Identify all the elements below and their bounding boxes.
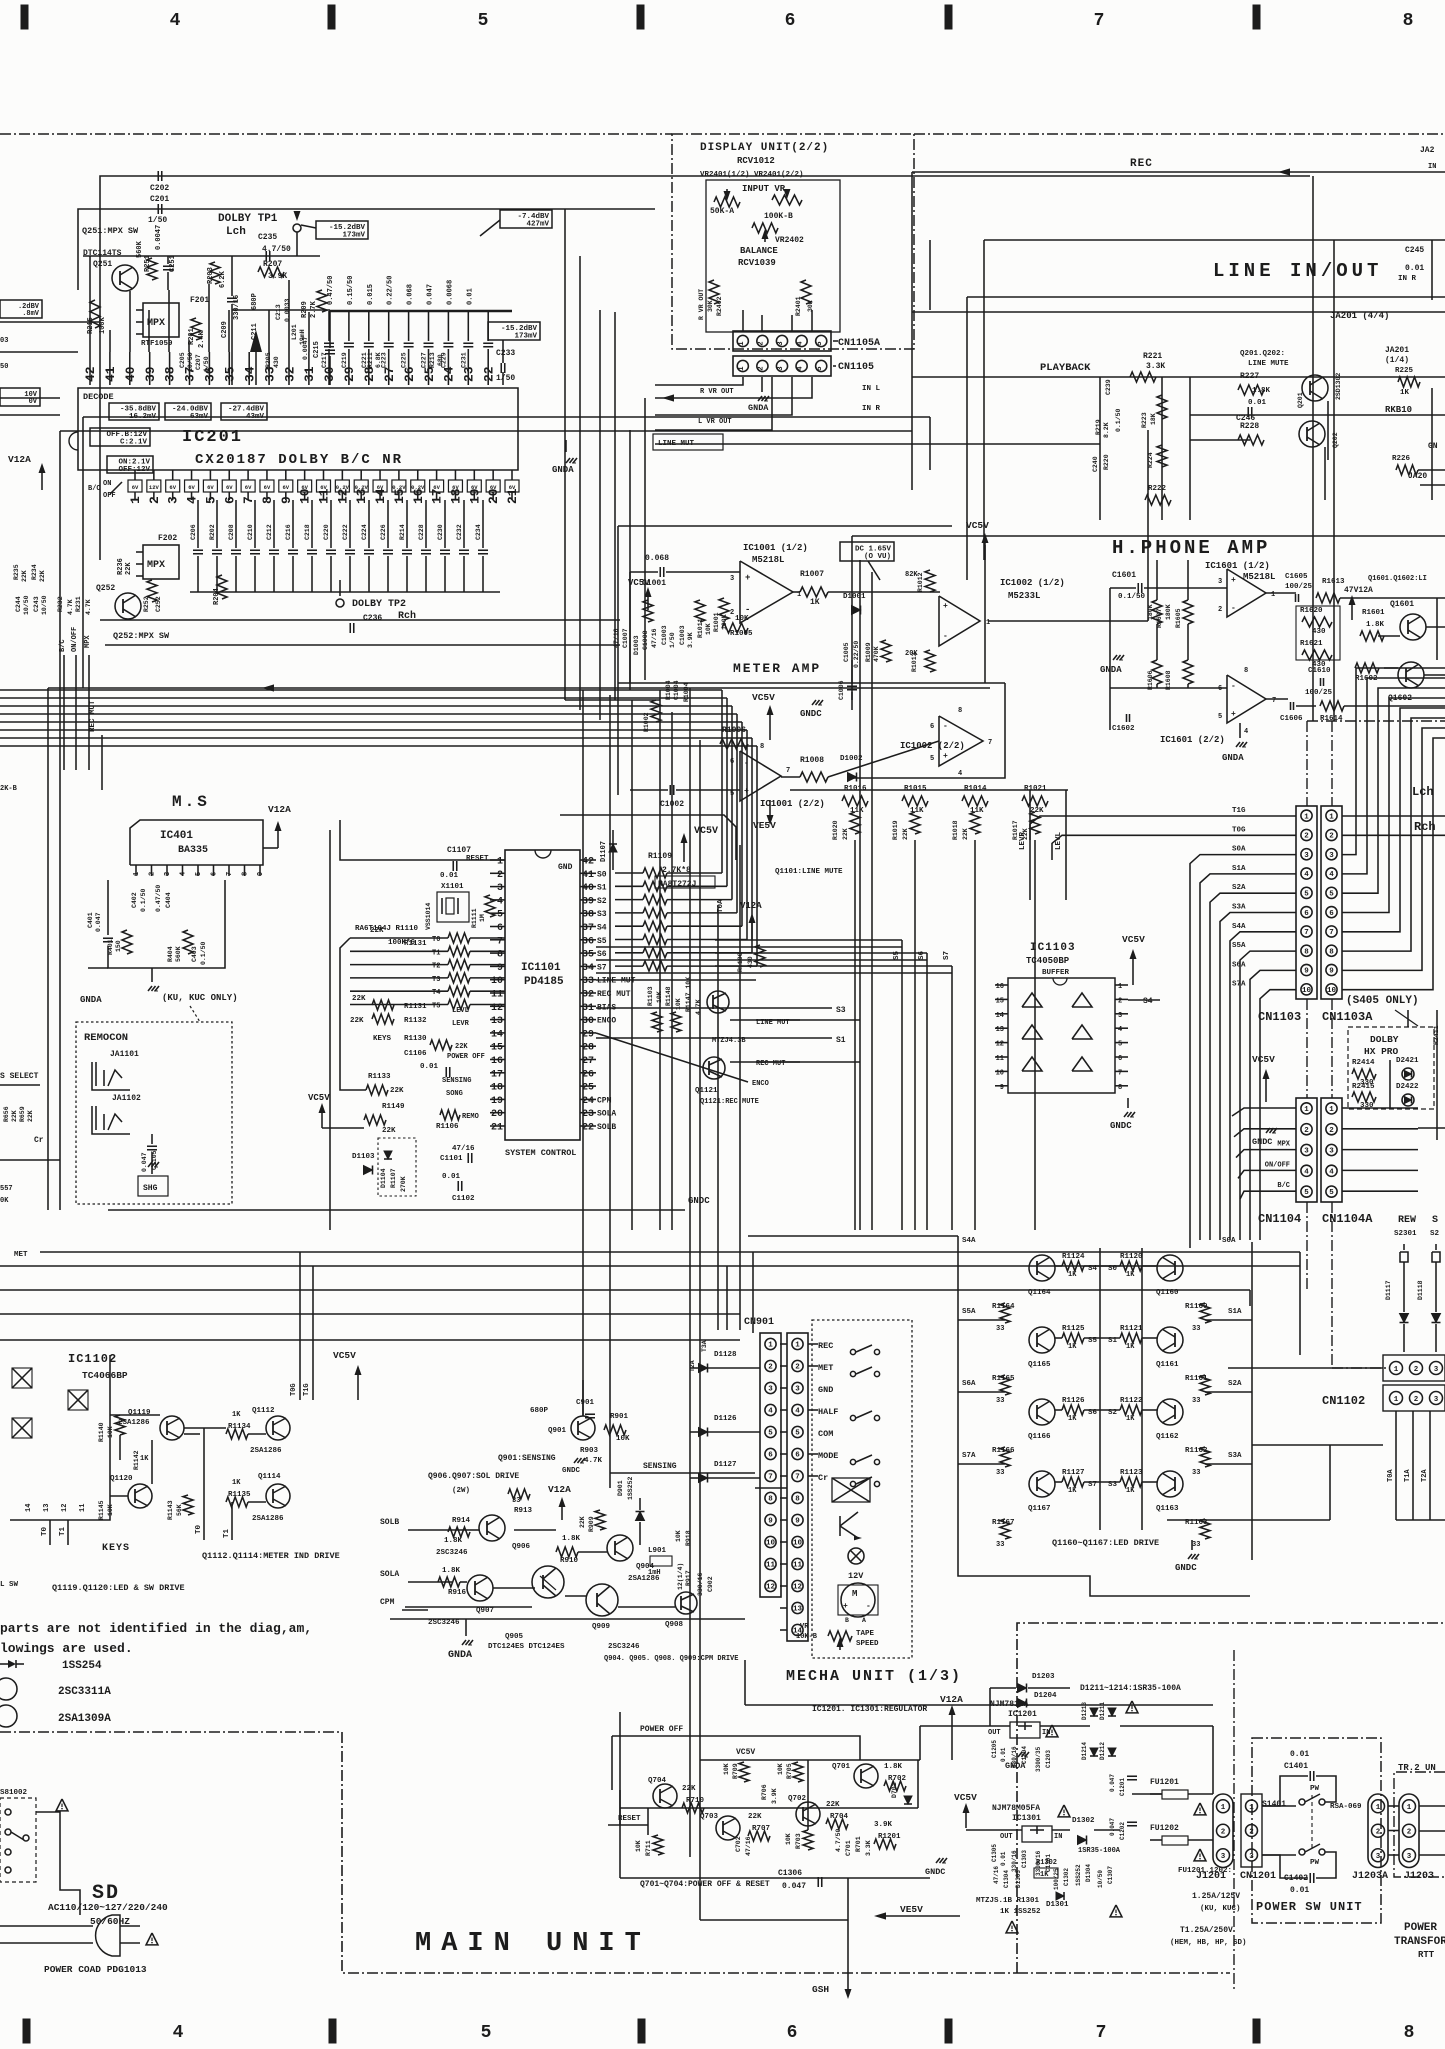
svg-text:M5218L: M5218L xyxy=(1243,572,1275,582)
svg-text:C208: C208 xyxy=(228,524,235,540)
svg-text:10/50: 10/50 xyxy=(41,595,48,615)
plug wires xyxy=(0,1925,93,1927)
svg-text:SHG: SHG xyxy=(143,1184,158,1193)
svg-text:1K: 1K xyxy=(1068,1487,1077,1495)
svg-text:C1102: C1102 xyxy=(452,1195,475,1203)
svg-text:R251: R251 xyxy=(144,255,152,272)
capacitor C227 xyxy=(428,311,430,341)
wire second rail xyxy=(78,209,655,290)
connector CN1102 row1 xyxy=(1383,1355,1445,1381)
svg-text:C228: C228 xyxy=(418,524,425,540)
wire top rail xyxy=(100,176,1310,560)
svg-text:3.9K: 3.9K xyxy=(874,1821,893,1829)
svg-text:ON/OFF: ON/OFF xyxy=(71,627,79,652)
svg-text:LEVR: LEVR xyxy=(452,1020,470,1028)
svg-text:Q252: Q252 xyxy=(96,584,115,593)
svg-text:MPX: MPX xyxy=(84,635,92,648)
svg-text:T1: T1 xyxy=(223,1528,231,1538)
svg-text:R1005: R1005 xyxy=(730,630,753,638)
svg-text:T2: T2 xyxy=(432,963,440,971)
svg-text:(O VU): (O VU) xyxy=(864,553,891,561)
svg-text:0.1/50: 0.1/50 xyxy=(1115,408,1122,432)
svg-text:3: 3 xyxy=(768,1386,773,1394)
svg-text:6: 6 xyxy=(222,496,237,504)
svg-text:MAIN UNIT: MAIN UNIT xyxy=(415,1929,651,1959)
svg-text:1M: 1M xyxy=(479,914,486,922)
svg-text:POWER COAD PDG1013: POWER COAD PDG1013 xyxy=(44,1964,147,1975)
svg-text:22K: 22K xyxy=(27,1110,34,1122)
svg-text:LINE IN/OUT: LINE IN/OUT xyxy=(1213,260,1382,282)
svg-text:C213: C213 xyxy=(275,304,282,320)
svg-text:6: 6 xyxy=(787,2023,798,2043)
svg-text:0.1/50: 0.1/50 xyxy=(140,888,147,912)
svg-text:Q1162: Q1162 xyxy=(1156,1433,1179,1441)
transistor Q907 xyxy=(467,1575,493,1601)
ic IC1103 body xyxy=(1008,978,1115,1093)
svg-text:VC5V: VC5V xyxy=(736,1748,755,1757)
svg-text:R1001: R1001 xyxy=(713,612,720,632)
svg-text:0.22/50: 0.22/50 xyxy=(853,641,860,668)
svg-text:8.2K: 8.2K xyxy=(1103,422,1110,438)
svg-text:1K: 1K xyxy=(810,598,820,607)
transistor Q1161 xyxy=(1157,1327,1183,1353)
transistor Q901 xyxy=(571,1416,595,1440)
svg-text:33: 33 xyxy=(1192,1469,1200,1477)
svg-text:1: 1 xyxy=(1249,1804,1254,1812)
svg-text:T1.25A/250V: T1.25A/250V xyxy=(1180,1926,1233,1935)
svg-text:NJM78M05FA: NJM78M05FA xyxy=(992,1804,1040,1813)
svg-text:3: 3 xyxy=(1221,1853,1226,1861)
svg-text:REW: REW xyxy=(1398,1215,1416,1226)
wire right bundle to grid xyxy=(1189,1240,1191,1248)
svg-text:13: 13 xyxy=(43,1504,51,1512)
ground GNDA hp xyxy=(1113,655,1117,660)
svg-text:7: 7 xyxy=(786,767,790,775)
transistor Q1160 xyxy=(1157,1255,1183,1281)
svg-text:+: + xyxy=(843,1602,848,1611)
svg-text:6: 6 xyxy=(211,872,219,876)
svg-text:1K: 1K xyxy=(1040,1871,1049,1879)
svg-text:D1118: D1118 xyxy=(1417,1280,1424,1300)
svg-text:3: 3 xyxy=(730,575,734,583)
wire cn901 feeds xyxy=(726,1266,728,1330)
value box -27.4dBV xyxy=(221,403,267,420)
svg-text:Rch: Rch xyxy=(398,610,416,622)
svg-text:GND: GND xyxy=(558,863,573,872)
svg-text:VC5V: VC5V xyxy=(1122,934,1145,945)
svg-text:R219: R219 xyxy=(1095,419,1102,435)
svg-text:1/50: 1/50 xyxy=(148,216,167,225)
svg-text:R1134: R1134 xyxy=(228,1423,251,1431)
svg-text:13: 13 xyxy=(354,488,369,504)
svg-text:+: + xyxy=(1231,710,1236,719)
svg-text:-: - xyxy=(943,722,948,731)
wire left edge stubs xyxy=(0,321,100,323)
svg-text:R2401: R2401 xyxy=(795,296,802,316)
svg-text:22K: 22K xyxy=(11,1110,18,1122)
diode D1104 R1107 xyxy=(378,1138,416,1196)
svg-text:D1204: D1204 xyxy=(1034,1692,1057,1700)
svg-text:D1128: D1128 xyxy=(714,1351,737,1359)
transistor Q1166 xyxy=(1029,1399,1055,1425)
svg-text:C252: C252 xyxy=(155,596,162,612)
svg-text:M: M xyxy=(852,1589,857,1599)
svg-text:Cr: Cr xyxy=(818,1473,828,1483)
svg-text:H.PHONE AMP: H.PHONE AMP xyxy=(1112,537,1270,559)
svg-text:VR2401(1/2) VR2401(2/2): VR2401(1/2) VR2401(2/2) xyxy=(700,171,804,179)
svg-text:+: + xyxy=(1231,576,1236,585)
svg-text:22K: 22K xyxy=(682,1785,696,1793)
connector CN1104A xyxy=(1321,1098,1342,1202)
wire meter out bus xyxy=(790,789,1068,791)
wire meter col down xyxy=(854,840,856,1230)
capacitor R202 xyxy=(216,500,218,548)
ground GNDA ic401 xyxy=(151,968,153,982)
svg-text:TR.2 UN: TR.2 UN xyxy=(1398,1763,1436,1773)
svg-text:C1601: C1601 xyxy=(1112,571,1136,580)
svg-text:VC5V: VC5V xyxy=(752,692,775,703)
svg-text:RSA-069: RSA-069 xyxy=(1330,1803,1362,1811)
svg-text:R227: R227 xyxy=(1240,372,1259,381)
capacitor C210 xyxy=(254,500,256,548)
mecha unit right border xyxy=(1017,1623,1445,1973)
svg-text:1: 1 xyxy=(1118,983,1122,991)
svg-text:3: 3 xyxy=(164,872,172,876)
svg-text:2SC3246: 2SC3246 xyxy=(608,1643,640,1651)
wire sol rails xyxy=(470,1529,479,1531)
svg-text:8: 8 xyxy=(1329,948,1334,956)
svg-text:C403: C403 xyxy=(191,946,198,962)
svg-text:Q1119.Q1120:LED & SW DRIVE: Q1119.Q1120:LED & SW DRIVE xyxy=(52,1583,185,1593)
svg-text:S: S xyxy=(1432,1215,1438,1226)
svg-text:4: 4 xyxy=(170,11,181,31)
svg-text:C231: C231 xyxy=(460,352,467,368)
svg-text:39: 39 xyxy=(143,366,158,382)
svg-text:C1304: C1304 xyxy=(1003,1870,1010,1888)
svg-text:R225: R225 xyxy=(1395,367,1414,375)
connector CN1104 xyxy=(1296,1098,1317,1202)
svg-text:1: 1 xyxy=(795,1342,800,1350)
svg-text:22: 22 xyxy=(482,366,497,382)
svg-text:26: 26 xyxy=(582,1069,594,1080)
svg-text:R1132: R1132 xyxy=(404,1017,427,1025)
svg-text:R221: R221 xyxy=(1143,352,1162,361)
connector J1203 xyxy=(1399,1794,1419,1868)
dolby hx pro box xyxy=(1348,1027,1434,1109)
svg-text:T5: T5 xyxy=(432,1003,440,1011)
svg-text:C1203: C1203 xyxy=(1045,1750,1052,1768)
wire keys bus xyxy=(151,1440,153,1484)
connector CN1103 xyxy=(1296,806,1317,999)
svg-text:T1G: T1G xyxy=(1232,807,1246,815)
svg-text:1: 1 xyxy=(497,857,503,868)
wire bottom left buses xyxy=(619,1712,621,1825)
svg-text:2: 2 xyxy=(497,870,503,881)
svg-text:6.8K: 6.8K xyxy=(375,352,382,368)
opamp IC1001a xyxy=(740,561,793,623)
svg-text:1: 1 xyxy=(1394,1366,1399,1374)
svg-text:1: 1 xyxy=(986,619,990,627)
wire vline right cluster xyxy=(1431,388,1433,500)
svg-text:7: 7 xyxy=(1329,929,1334,937)
warning fu1202 xyxy=(1194,1849,1206,1861)
svg-text:R704: R704 xyxy=(830,1813,849,1821)
tr2 unit border xyxy=(1394,1772,1445,1877)
svg-text:32: 32 xyxy=(282,366,297,382)
ic IC401 xyxy=(130,820,263,865)
svg-text:VE5V: VE5V xyxy=(900,1904,923,1915)
svg-text:C1202: C1202 xyxy=(1119,1822,1126,1840)
svg-text:4: 4 xyxy=(958,770,962,778)
wire left verticals xyxy=(47,688,49,1210)
svg-text:IC1101: IC1101 xyxy=(521,962,561,974)
svg-text:R701: R701 xyxy=(855,1836,862,1852)
svg-text:10K: 10K xyxy=(735,615,749,623)
svg-text:TAPE: TAPE xyxy=(856,1630,875,1638)
svg-text:27: 27 xyxy=(582,1056,594,1067)
svg-text:SOLA: SOLA xyxy=(597,1110,616,1119)
capacitor C251 xyxy=(163,265,173,267)
svg-text:S3A: S3A xyxy=(1228,1452,1242,1460)
svg-text:S3: S3 xyxy=(836,1006,846,1015)
svg-text:22: 22 xyxy=(582,1123,594,1134)
svg-text:C1107: C1107 xyxy=(447,846,471,855)
svg-text:D1212: D1212 xyxy=(1099,1742,1106,1760)
svg-text:10: 10 xyxy=(1327,987,1337,995)
svg-text:18K: 18K xyxy=(1150,413,1157,425)
svg-text:Q1160~Q1167:LED DRIVE: Q1160~Q1167:LED DRIVE xyxy=(1052,1538,1159,1548)
capacitor C233col xyxy=(487,311,489,341)
svg-text:-: - xyxy=(866,1602,871,1611)
svg-text:REC MUT: REC MUT xyxy=(597,990,631,999)
svg-text:10: 10 xyxy=(996,1069,1004,1077)
svg-text:1SS252: 1SS252 xyxy=(1075,1864,1082,1886)
svg-text:C218: C218 xyxy=(304,524,311,540)
value box -35.8dBV xyxy=(109,403,159,420)
svg-text:CPM: CPM xyxy=(380,1598,395,1607)
capacitor C1606 xyxy=(1290,702,1292,710)
svg-text:0V: 0V xyxy=(29,398,38,406)
svg-text:0.01: 0.01 xyxy=(420,1063,439,1071)
svg-text:C210: C210 xyxy=(247,524,254,540)
svg-text:Q1112.Q1114:METER IND DRIVE: Q1112.Q1114:METER IND DRIVE xyxy=(202,1551,340,1561)
svg-text:50K-A: 50K-A xyxy=(710,207,734,216)
svg-text:2: 2 xyxy=(149,872,157,876)
svg-text:C1305: C1305 xyxy=(991,1844,998,1862)
connector CN901a xyxy=(760,1333,781,1597)
svg-text:DTC124ES DTC124ES: DTC124ES DTC124ES xyxy=(488,1643,565,1651)
svg-text:C227: C227 xyxy=(421,352,428,368)
svg-text:1: 1 xyxy=(1304,813,1309,821)
svg-text:26: 26 xyxy=(402,366,417,382)
svg-text:R1020: R1020 xyxy=(832,820,839,840)
wire grid row xyxy=(1055,1337,1062,1339)
transistor Q908 xyxy=(675,1592,697,1614)
capacitor C225 xyxy=(408,311,410,341)
svg-text:R1143: R1143 xyxy=(167,1500,174,1520)
svg-text:2SA1309A: 2SA1309A xyxy=(58,1713,111,1725)
transistor legend 2SC3311A xyxy=(0,1678,17,1700)
svg-text:R1018: R1018 xyxy=(952,820,959,840)
svg-text:JA201: JA201 xyxy=(1385,346,1409,355)
svg-text:7: 7 xyxy=(1118,1069,1122,1077)
svg-text:C1007: C1007 xyxy=(622,628,629,648)
svg-text:VC5V: VC5V xyxy=(628,578,650,588)
svg-text:40: 40 xyxy=(123,366,138,382)
svg-text:16: 16 xyxy=(491,1056,503,1067)
svg-text:2SC3311A: 2SC3311A xyxy=(58,1686,111,1698)
svg-text:R910: R910 xyxy=(560,1557,579,1565)
svg-text:27: 27 xyxy=(382,366,397,382)
svg-text:C401: C401 xyxy=(87,912,94,928)
svg-text:38: 38 xyxy=(163,366,178,382)
svg-text:IC1601 (1/2): IC1601 (1/2) xyxy=(1205,561,1270,571)
svg-text:2K-B: 2K-B xyxy=(0,785,18,793)
svg-text:R1106: R1106 xyxy=(436,1123,459,1131)
transistor Q1164 xyxy=(1029,1255,1055,1281)
svg-text:RTF1059: RTF1059 xyxy=(141,340,173,348)
svg-text:RESET: RESET xyxy=(618,1815,641,1823)
svg-text:3.3K: 3.3K xyxy=(1146,362,1165,371)
svg-text:47V12A: 47V12A xyxy=(1344,586,1373,595)
svg-text:S2A: S2A xyxy=(1228,1380,1242,1388)
svg-text:33: 33 xyxy=(1192,1541,1200,1549)
svg-text:2: 2 xyxy=(1249,1829,1254,1837)
svg-text:DISPLAY UNIT(2/2): DISPLAY UNIT(2/2) xyxy=(700,142,829,154)
cn1103 right stair wires xyxy=(1342,815,1445,817)
capacitor R214 xyxy=(406,500,408,548)
svg-text:IC1201. IC1301:REGULATOR: IC1201. IC1301:REGULATOR xyxy=(812,1705,927,1714)
capacitor C228 xyxy=(425,500,427,548)
svg-text:JA2: JA2 xyxy=(1420,146,1435,155)
svg-text:R1111: R1111 xyxy=(471,908,478,928)
svg-text:3: 3 xyxy=(777,341,785,346)
svg-text:1: 1 xyxy=(738,366,746,371)
svg-text:Q252:MPX SW: Q252:MPX SW xyxy=(113,631,170,641)
svg-text:4: 4 xyxy=(180,872,188,876)
svg-text:8: 8 xyxy=(1403,11,1414,31)
main unit top border xyxy=(0,133,672,135)
svg-text:R1016: R1016 xyxy=(844,785,867,793)
svg-text:1K: 1K xyxy=(1126,1343,1135,1351)
svg-text:GN: GN xyxy=(1428,442,1438,451)
svg-text:15: 15 xyxy=(996,997,1004,1005)
svg-text:2: 2 xyxy=(1118,997,1122,1005)
svg-text:0.01: 0.01 xyxy=(1405,264,1424,273)
svg-text:MET: MET xyxy=(818,1363,833,1373)
svg-text:R231: R231 xyxy=(75,596,82,612)
svg-text:557: 557 xyxy=(0,1185,13,1193)
svg-text:6.2K: 6.2K xyxy=(219,270,227,288)
svg-text:21: 21 xyxy=(491,1123,503,1134)
svg-text:1K 1SS252: 1K 1SS252 xyxy=(1000,1908,1041,1916)
svg-text:22K: 22K xyxy=(902,828,909,840)
svg-text:SYSTEM CONTROL: SYSTEM CONTROL xyxy=(505,1148,576,1158)
svg-text:20: 20 xyxy=(491,1109,503,1120)
opamp IC1002a xyxy=(939,596,980,646)
svg-text:R203: R203 xyxy=(207,267,215,284)
svg-text:R1130: R1130 xyxy=(404,1035,427,1043)
svg-text:C233: C233 xyxy=(496,349,515,358)
svg-text:V12A: V12A xyxy=(740,901,762,911)
svg-text:GNDA: GNDA xyxy=(448,1650,472,1661)
svg-text:GNDA: GNDA xyxy=(1222,753,1244,763)
svg-text:270K: 270K xyxy=(400,1176,407,1192)
ground GNDC q901 xyxy=(574,1458,578,1463)
svg-text:22K: 22K xyxy=(21,570,28,582)
svg-text:OUT: OUT xyxy=(988,1729,1001,1737)
svg-text:1.8K: 1.8K xyxy=(1252,387,1271,395)
svg-text:9: 9 xyxy=(1304,968,1309,976)
wire line mut out xyxy=(596,979,756,981)
svg-text:3: 3 xyxy=(1118,1012,1122,1020)
svg-text:1K: 1K xyxy=(1126,1487,1135,1495)
svg-text:C226: C226 xyxy=(380,524,387,540)
svg-text:L VR OUT: L VR OUT xyxy=(698,418,732,426)
svg-text:R1147 10K: R1147 10K xyxy=(685,977,692,1012)
svg-text:7: 7 xyxy=(1304,929,1309,937)
svg-text:100/25: 100/25 xyxy=(1305,689,1333,697)
svg-text:D1127: D1127 xyxy=(714,1461,737,1469)
svg-text:C902: C902 xyxy=(707,1576,714,1592)
svg-text:11: 11 xyxy=(79,1504,87,1512)
svg-text:7: 7 xyxy=(226,872,234,876)
svg-text:100K-B: 100K-B xyxy=(764,212,793,221)
wire mid rails low xyxy=(659,690,661,1230)
svg-text:1.8K: 1.8K xyxy=(442,1567,461,1575)
svg-text:C:2.1V: C:2.1V xyxy=(120,438,148,446)
svg-text:2: 2 xyxy=(768,1364,773,1372)
svg-text:REMOCON: REMOCON xyxy=(84,1032,128,1044)
svg-text:-: - xyxy=(1231,682,1236,691)
svg-text:R1140: R1140 xyxy=(98,1422,105,1442)
svg-text:RCV1039: RCV1039 xyxy=(738,258,776,268)
svg-text:C230: C230 xyxy=(437,524,444,540)
svg-text:T4: T4 xyxy=(432,989,440,997)
svg-text:CX20187 DOLBY B/C NR: CX20187 DOLBY B/C NR xyxy=(195,452,403,468)
svg-text:C202: C202 xyxy=(150,184,169,193)
svg-text:2SC3246: 2SC3246 xyxy=(436,1549,468,1557)
svg-text:+: + xyxy=(943,752,948,761)
svg-text:C1610: C1610 xyxy=(1308,667,1331,675)
ground GNDC cn1104 xyxy=(1266,1128,1270,1133)
svg-text:9: 9 xyxy=(1329,968,1334,976)
svg-text:C206: C206 xyxy=(190,524,197,540)
svg-text:COM: COM xyxy=(818,1429,833,1439)
wire grid row xyxy=(1055,1481,1062,1483)
svg-text:(1/4): (1/4) xyxy=(1385,356,1409,365)
svg-text:parts are not identified in th: parts are not identified in the diag,am, xyxy=(0,1621,312,1636)
svg-text:18: 18 xyxy=(491,1083,503,1094)
warning sd xyxy=(56,1799,68,1811)
svg-text:R1131: R1131 xyxy=(404,940,427,948)
svg-text:427mV: 427mV xyxy=(526,220,549,228)
svg-text:3.3K: 3.3K xyxy=(865,1840,872,1856)
svg-text:Q909: Q909 xyxy=(592,1623,611,1631)
ground GNDC ic1103 xyxy=(1127,1098,1129,1108)
svg-text:0.068: 0.068 xyxy=(407,284,415,305)
svg-text:Q1166: Q1166 xyxy=(1028,1433,1051,1441)
svg-text:S2: S2 xyxy=(597,897,607,906)
svg-text:50: 50 xyxy=(0,363,8,371)
svg-text:R917: R917 xyxy=(685,1570,692,1586)
ground GNDA reg xyxy=(1018,1752,1022,1757)
svg-text:6: 6 xyxy=(1118,1055,1122,1063)
svg-text:REC: REC xyxy=(1130,158,1153,170)
svg-text:R702: R702 xyxy=(888,1775,907,1783)
svg-text:1: 1 xyxy=(1271,591,1275,599)
svg-text:ON/OFF: ON/OFF xyxy=(1265,1161,1290,1169)
